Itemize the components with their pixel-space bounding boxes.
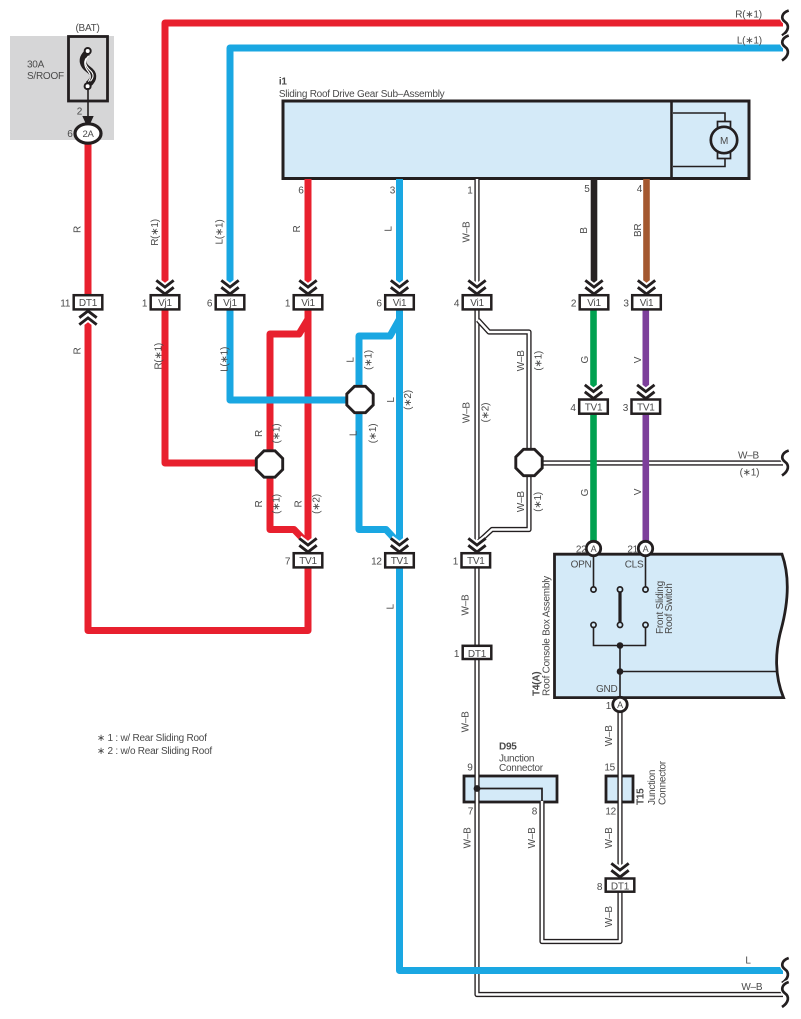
svg-text:TV1: TV1 [467, 556, 485, 567]
terminal 21 A [638, 541, 652, 555]
svg-text:L(∗1): L(∗1) [737, 35, 762, 46]
svg-text:(∗1): (∗1) [740, 468, 760, 479]
svg-text:Vi1: Vi1 [587, 298, 601, 309]
connector 3 Vi1 [623, 295, 660, 309]
svg-text:B: B [579, 227, 590, 234]
wire W-B main 4 Vi1 down to 1 TV1 [474, 305, 479, 556]
svg-text:(∗1): (∗1) [363, 350, 374, 370]
connector 1 TV1 [453, 553, 490, 567]
svg-text:12: 12 [605, 807, 616, 818]
terminal 2A ellipse [75, 124, 101, 143]
arrow into 7 TV1 [299, 538, 316, 552]
wire L(*1) junction down to 12 TV1 [359, 408, 398, 543]
svg-text:L: L [386, 603, 397, 609]
wire GND branch to right edge [620, 671, 777, 673]
svg-text:BR: BR [633, 224, 644, 237]
connector 1 Vj1 [142, 295, 179, 309]
svg-text:D95: D95 [499, 741, 517, 752]
svg-text:R(∗1): R(∗1) [735, 10, 762, 21]
wire switch common down to GND [619, 646, 621, 702]
wire B pin5 i1 to 2 Vi1 [591, 179, 598, 299]
junction dot switch common [617, 642, 624, 649]
svg-text:(∗1): (∗1) [272, 424, 283, 444]
svg-text:∗ 1 : w/ Rear Sliding Roof: ∗ 1 : w/ Rear Sliding Roof [97, 733, 207, 744]
svg-text:W–B: W–B [741, 982, 763, 993]
arrow into 8 DT1 [611, 863, 628, 877]
arrow fuse pin2 into terminal [82, 116, 93, 129]
arrow into 2 Vi1 [585, 280, 602, 294]
svg-text:Connector: Connector [658, 760, 669, 805]
svg-text:8: 8 [532, 807, 538, 818]
svg-text:4: 4 [637, 184, 643, 195]
arrow into 3 Vi1 [638, 280, 655, 294]
wire W-B pin1 i1 to 4 Vi1 [474, 179, 479, 299]
svg-text:OPN: OPN [571, 559, 592, 570]
svg-text:1: 1 [454, 649, 460, 660]
svg-text:W–B: W–B [604, 906, 615, 928]
svg-text:V: V [633, 356, 644, 363]
terminal 22 A [586, 541, 600, 555]
wire L(*2) 6 Vi1 down to 12 TV1 [396, 305, 403, 556]
svg-text:TV1: TV1 [391, 556, 409, 567]
svg-text:1: 1 [285, 299, 291, 310]
svg-text:L(∗1): L(∗1) [219, 347, 230, 372]
svg-text:L(∗1): L(∗1) [215, 220, 226, 245]
wire V 3 Vi1 to 3 TV1 [642, 305, 649, 404]
wire L pin3 i1 to 6 Vi1 [396, 179, 403, 299]
break R(*1) right edge [782, 11, 789, 36]
arrow out of 11 DT1 [79, 311, 96, 325]
connector 2 Vi1 [571, 295, 608, 309]
svg-text:L: L [384, 226, 395, 232]
wire W-B 1 TV1 to 1 DT1 [474, 561, 479, 650]
switch lead from terminal 21 CLS [645, 555, 647, 587]
wire R 1 Vj1 down and right to junction [165, 305, 259, 463]
wire G 2 Vi1 to 4 TV1 [590, 305, 597, 404]
svg-text:CLS: CLS [625, 559, 644, 570]
wire R fuse 2A down to 11 DT1 [85, 141, 92, 299]
svg-text:2: 2 [571, 299, 577, 310]
svg-text:6: 6 [376, 299, 382, 310]
svg-text:W–B: W–B [738, 451, 760, 462]
wire R(*1) junction down to 7 TV1 [270, 472, 307, 543]
arrow into 6 Vj1 [221, 280, 238, 294]
arrow into 1 Vj1 [156, 280, 173, 294]
svg-text:12: 12 [371, 557, 382, 568]
svg-text:9: 9 [467, 763, 473, 774]
break W-B(*1) right edge [782, 451, 789, 476]
svg-text:3: 3 [623, 299, 629, 310]
svg-text:G: G [580, 488, 591, 496]
svg-text:Junction: Junction [647, 770, 658, 805]
wire L(*1) top horizontal and down to 6 Vj1 [230, 48, 783, 299]
wire W-B (*1) lower branch from junction [479, 471, 529, 542]
node junction W-B(*1) [516, 449, 542, 475]
svg-text:TV1: TV1 [637, 403, 655, 414]
svg-text:(∗2): (∗2) [403, 390, 414, 410]
svg-text:G: G [580, 355, 591, 363]
wire R(*1) top horizontal and down to 1 Vj1 [165, 23, 783, 299]
svg-text:R: R [254, 430, 265, 437]
svg-text:2: 2 [77, 107, 83, 118]
svg-text:W–B: W–B [604, 725, 615, 747]
connector 7 TV1 [285, 553, 322, 567]
connector 4 TV1 [570, 400, 607, 414]
svg-text:R: R [294, 500, 305, 507]
wire R 11 DT1 down, right, up into 7 TV1 bottom [88, 305, 308, 631]
connector 4 Vi1 [454, 295, 491, 309]
wire L(*1) 6 Vj1 down and right to junction [230, 305, 349, 400]
switch contact lower left [591, 622, 596, 627]
svg-text:Vi1: Vi1 [301, 298, 315, 309]
switch contact OPN [591, 587, 596, 592]
wire L(*1) branch from 6 Vi1 wire to junction [359, 320, 399, 391]
connector 11 DT1 [60, 295, 102, 309]
wire D95 internal bus [477, 789, 542, 802]
wire BR pin4 i1 to 3 Vi1 [643, 179, 650, 299]
arrow into 12 TV1 [391, 538, 408, 552]
svg-text:W–B: W–B [462, 827, 473, 849]
svg-text:4: 4 [454, 299, 460, 310]
svg-text:(∗1): (∗1) [533, 492, 544, 512]
svg-text:(∗1): (∗1) [368, 424, 379, 444]
connector 6 Vi1 [376, 295, 413, 309]
svg-text:Roof Console Box Assembly: Roof Console Box Assembly [542, 576, 553, 696]
D95 junction connector box [464, 776, 557, 802]
connector 6 Vj1 [207, 295, 244, 309]
component i1 Sliding Roof Drive Gear Sub-Assembly box [283, 101, 749, 179]
break W-B bottom right edge [782, 982, 789, 1007]
svg-text:W–B: W–B [460, 594, 471, 616]
svg-text:∗ 2 : w/o Rear Sliding Roof: ∗ 2 : w/o Rear Sliding Roof [97, 746, 212, 757]
svg-text:6: 6 [207, 299, 213, 310]
connector 1 Vi1 [285, 295, 322, 309]
svg-text:2A: 2A [82, 129, 94, 140]
connector 8 DT1 [597, 879, 634, 893]
arrow into 3 TV1 [637, 385, 654, 399]
arrow into 4 TV1 [585, 385, 602, 399]
svg-text:3: 3 [390, 186, 396, 197]
svg-text:1: 1 [453, 557, 459, 568]
switch pole bar [618, 592, 621, 623]
svg-text:7: 7 [285, 557, 291, 568]
wire W-B (*1) upper branch to junction [478, 320, 529, 455]
node junction R(*1) [256, 451, 282, 477]
arrow into 1 TV1 [468, 538, 485, 552]
connector 3 TV1 [623, 400, 660, 414]
wire W-B (*1) horizontal to right edge [540, 460, 783, 465]
svg-text:L: L [386, 397, 397, 403]
svg-text:6: 6 [67, 129, 73, 140]
motor M symbol inside i1 [673, 113, 737, 167]
svg-text:R: R [292, 225, 303, 232]
svg-text:21: 21 [627, 545, 638, 556]
wire W-B GND terminal through T15 pin15/pin12 to 8 DT1 [617, 709, 622, 880]
arrow into 1 Vi1 [299, 280, 316, 294]
svg-text:GND: GND [596, 684, 618, 695]
switch lead from terminal 22 OPN [593, 555, 595, 587]
svg-text:L: L [745, 956, 751, 967]
svg-text:Sliding Roof Drive Gear Sub–As: Sliding Roof Drive Gear Sub–Assembly [279, 89, 445, 100]
svg-text:(BAT): (BAT) [75, 23, 99, 34]
wire R pin6 i1 to 1 Vi1 [305, 179, 312, 299]
svg-text:(∗2): (∗2) [481, 403, 492, 423]
svg-text:1: 1 [606, 701, 612, 712]
svg-text:(∗1): (∗1) [534, 351, 545, 371]
svg-text:(∗2): (∗2) [312, 494, 323, 514]
svg-text:11: 11 [60, 299, 71, 310]
svg-text:W–B: W–B [462, 402, 473, 424]
svg-text:i1: i1 [279, 77, 288, 88]
svg-text:R: R [73, 226, 84, 233]
svg-text:(∗1): (∗1) [272, 494, 283, 514]
terminal 1 A GND [613, 697, 627, 711]
svg-text:W–B: W–B [516, 491, 527, 512]
svg-text:T15: T15 [636, 788, 647, 805]
svg-text:Roof Switch: Roof Switch [664, 583, 675, 634]
wire W-B D95 pin8 loop to 8 DT1 [542, 801, 620, 942]
break L bottom right edge [782, 958, 789, 983]
svg-text:W–B: W–B [462, 221, 473, 243]
wire G 4 TV1 to terminal 22 [590, 410, 597, 545]
svg-text:DT1: DT1 [611, 882, 630, 893]
svg-text:Vj1: Vj1 [158, 298, 172, 309]
svg-text:Vi1: Vi1 [640, 298, 654, 309]
svg-text:L: L [346, 357, 357, 363]
svg-text:30A: 30A [27, 60, 45, 71]
component T4(A) Roof Console Box Assembly box [555, 554, 788, 697]
svg-text:7: 7 [468, 807, 474, 818]
svg-text:TV1: TV1 [585, 403, 603, 414]
svg-text:TV1: TV1 [299, 556, 317, 567]
wire V 3 TV1 to terminal 21 [642, 410, 649, 545]
svg-text:L: L [348, 430, 359, 436]
switch contact lower right [643, 622, 648, 627]
switch contact CLS [643, 587, 648, 592]
svg-text:R: R [254, 500, 265, 507]
svg-text:W–B: W–B [527, 827, 538, 849]
connector 12 TV1 [371, 553, 414, 567]
svg-text:6: 6 [298, 186, 304, 197]
svg-text:Vi1: Vi1 [470, 298, 484, 309]
svg-text:V: V [633, 488, 644, 495]
svg-text:4: 4 [570, 403, 576, 414]
svg-text:15: 15 [604, 763, 615, 774]
svg-text:W–B: W–B [604, 827, 615, 849]
wire fuse lead pin2 [87, 88, 89, 119]
svg-text:Vj1: Vj1 [223, 298, 237, 309]
svg-text:Connector: Connector [499, 763, 544, 774]
svg-text:R: R [73, 347, 84, 354]
svg-text:1: 1 [142, 299, 148, 310]
svg-text:8: 8 [597, 882, 603, 893]
T15 junction connector box [606, 776, 633, 802]
wire L 12 TV1 down to bottom right edge [400, 561, 784, 971]
svg-text:R(∗1): R(∗1) [150, 219, 161, 246]
arrow into 6 Vi1 [391, 280, 408, 294]
svg-text:3: 3 [623, 403, 629, 414]
wire W-B 1 DT1 through D95 pin7 to bottom right edge [477, 655, 783, 995]
svg-text:5: 5 [584, 184, 590, 195]
break L(*1) right edge [782, 36, 789, 61]
wire R(*1) branch from 1 Vi1 wire to junction [270, 320, 308, 455]
switch contact pole top [617, 587, 622, 592]
node junction L(*1) [347, 386, 373, 412]
fuse 30A S/ROOF [69, 37, 108, 102]
junction dot D95 pin9 [474, 785, 481, 792]
connector 1 DT1 [454, 646, 491, 660]
wire R(*2) 1 Vi1 down to 7 TV1 [305, 305, 312, 556]
svg-text:DT1: DT1 [468, 649, 487, 660]
junction dot GND branch [617, 668, 624, 675]
svg-text:Vi1: Vi1 [393, 298, 407, 309]
switch contact pole bottom [617, 622, 622, 627]
wire switch common left [594, 628, 621, 646]
fuse block background panel [10, 36, 114, 140]
svg-text:DT1: DT1 [79, 298, 98, 309]
wire switch common right [620, 628, 646, 646]
svg-text:S/ROOF: S/ROOF [27, 71, 64, 82]
arrow into 4 Vi1 [468, 280, 485, 294]
svg-text:1: 1 [467, 186, 473, 197]
svg-text:22: 22 [576, 545, 587, 556]
svg-text:R(∗1): R(∗1) [154, 343, 165, 370]
svg-text:W–B: W–B [460, 711, 471, 733]
svg-text:W–B: W–B [516, 350, 527, 372]
svg-text:M: M [720, 136, 728, 147]
